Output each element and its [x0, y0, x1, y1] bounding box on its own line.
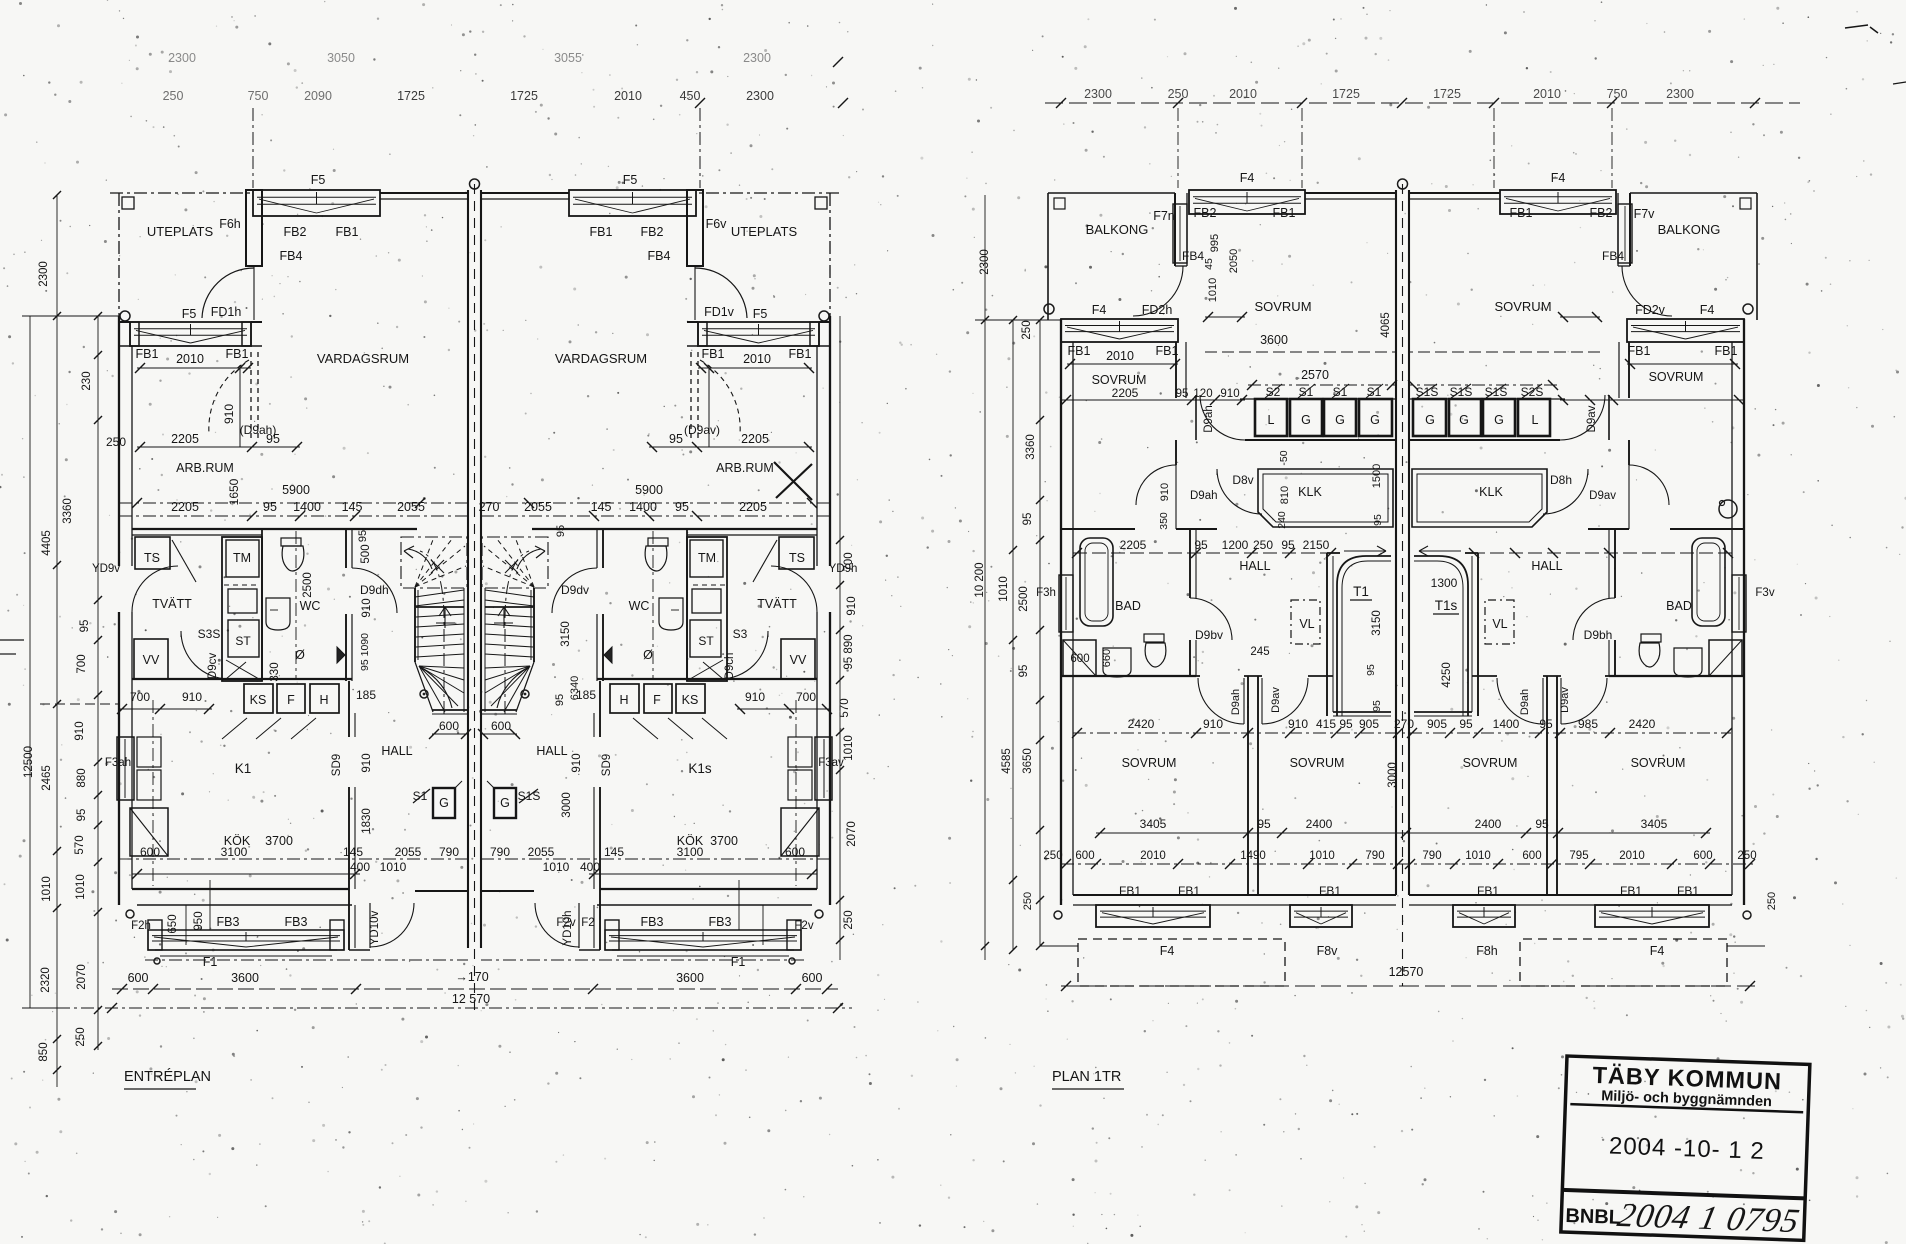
svg-text:790: 790 [490, 845, 510, 859]
svg-text:985: 985 [1578, 717, 1598, 731]
svg-text:3600: 3600 [1260, 333, 1288, 347]
svg-text:905: 905 [1359, 717, 1379, 731]
svg-text:2500: 2500 [302, 572, 314, 598]
svg-text:750: 750 [248, 89, 269, 103]
stair dashed radials [415, 537, 434, 587]
svg-text:600: 600 [128, 971, 149, 985]
svg-text:790: 790 [439, 845, 459, 859]
svg-text:UTEPLATS: UTEPLATS [147, 224, 214, 239]
svg-text:F5: F5 [623, 173, 638, 187]
svg-text:FB3: FB3 [285, 915, 308, 929]
svg-text:1300: 1300 [1431, 576, 1458, 590]
svg-text:5900: 5900 [282, 483, 310, 497]
svg-text:2300: 2300 [1666, 87, 1694, 101]
svg-text:D9bh: D9bh [1584, 628, 1613, 642]
svg-text:FB2: FB2 [284, 225, 307, 239]
svg-text:SOVRUM: SOVRUM [1494, 299, 1551, 314]
svg-text:810: 810 [1279, 486, 1291, 504]
svg-text:1010: 1010 [998, 576, 1010, 602]
svg-text:795: 795 [1569, 850, 1588, 862]
svg-text:D8h: D8h [1550, 473, 1572, 487]
svg-text:2055: 2055 [395, 845, 422, 859]
toilet stub circle right sovrum [1719, 500, 1737, 518]
svg-text:PLAN 1TR: PLAN 1TR [1052, 1069, 1121, 1085]
svg-text:995: 995 [1209, 234, 1221, 252]
svg-text:1725: 1725 [1332, 87, 1360, 101]
svg-text:145: 145 [343, 845, 363, 859]
svg-text:F7v: F7v [1634, 207, 1656, 221]
uteplats dash-dot boundary top [110, 192, 253, 194]
svg-text:2205: 2205 [1112, 386, 1139, 400]
stair winder arc [420, 667, 452, 708]
chase wall between bottom sovrums [1247, 676, 1249, 895]
svg-text:FB4: FB4 [1602, 249, 1624, 263]
bottom window band 2 [1290, 905, 1352, 927]
svg-text:1010: 1010 [543, 860, 570, 874]
svg-text:VARDAGSRUM: VARDAGSRUM [555, 351, 647, 366]
door FD1h arc [202, 268, 254, 318]
left chain right plan lines [984, 195, 986, 960]
party wall ENTREPLAN [467, 190, 469, 948]
svg-text:3055: 3055 [554, 51, 582, 65]
stair arrow upper [408, 549, 432, 569]
closet top line [1240, 398, 1396, 400]
svg-text:D9av: D9av [1270, 687, 1282, 713]
svg-text:HALL: HALL [536, 744, 567, 758]
svg-text:600: 600 [1075, 850, 1094, 862]
svg-text:3405: 3405 [1140, 817, 1167, 831]
svg-text:F5: F5 [182, 307, 197, 321]
svg-text:UTEPLATS: UTEPLATS [731, 224, 798, 239]
stamp outer box [1561, 1056, 1810, 1240]
grid circles right plan [1044, 304, 1054, 314]
toilet WC [281, 538, 301, 546]
hall wall below sovrum [1073, 528, 1135, 530]
svg-text:G: G [500, 796, 510, 810]
door bottom sovrum left leaf+arc [1243, 678, 1245, 724]
svg-text:D9ah: D9ah [1203, 405, 1215, 433]
svg-text:FB1: FB1 [789, 347, 812, 361]
stair slanted treads top [415, 590, 464, 597]
WC right wall upper [345, 529, 347, 568]
dim line sovrum mid row [1061, 399, 1245, 401]
dim line hall row [1073, 552, 1335, 554]
dashdot porch line [145, 959, 468, 961]
svg-text:F4: F4 [1551, 171, 1566, 185]
svg-text:HALL: HALL [381, 744, 412, 758]
svg-text:FB2: FB2 [1194, 206, 1217, 220]
stair bottom edge [432, 709, 467, 711]
svg-text:3650: 3650 [1022, 748, 1034, 774]
svg-text:2004 1 0795: 2004 1 0795 [1614, 1196, 1803, 1240]
corner post vardagsrum [246, 190, 262, 266]
PLAN1TR left-unit geometry [1040, 190, 1397, 986]
svg-text:95: 95 [1176, 388, 1189, 400]
stair left wall [1326, 553, 1328, 716]
svg-text:600: 600 [140, 845, 160, 859]
svg-text:D9dh: D9dh [360, 583, 389, 597]
svg-text:FB1: FB1 [1715, 344, 1738, 358]
porch dashed rect [1078, 939, 1285, 986]
svg-text:F4: F4 [1700, 303, 1715, 317]
svg-text:250: 250 [1021, 320, 1033, 339]
edge marks left [0, 639, 24, 641]
dim lines y858 [119, 858, 468, 860]
svg-text:905: 905 [1427, 717, 1447, 731]
svg-text:270: 270 [1394, 717, 1414, 731]
top window F4 [1189, 190, 1305, 214]
door D9ah arc sovrum [1136, 465, 1176, 505]
sovrum internal dim lines [1205, 316, 1245, 318]
TS diagonal [172, 540, 196, 582]
BAD right wall [1189, 529, 1191, 598]
svg-text:415: 415 [1316, 717, 1336, 731]
svg-text:SOVRUM: SOVRUM [1092, 373, 1147, 387]
south wall at entry [415, 890, 468, 892]
svg-text:12 570: 12 570 [452, 992, 490, 1006]
door S3S arc tvatt [181, 631, 229, 679]
svg-text:2570: 2570 [1301, 368, 1329, 382]
G wardrobe box [433, 788, 455, 818]
svg-text:SOVRUM: SOVRUM [1254, 299, 1311, 314]
washbasin WC [266, 598, 290, 630]
svg-text:600: 600 [802, 971, 823, 985]
svg-text:1400: 1400 [629, 500, 657, 514]
svg-text:145: 145 [342, 500, 363, 514]
svg-text:1010: 1010 [380, 860, 407, 874]
svg-text:G: G [1370, 413, 1380, 427]
svg-text:D9ch: D9ch [724, 653, 736, 680]
svg-text:4585: 4585 [1001, 748, 1013, 774]
svg-text:95 890: 95 890 [843, 634, 855, 669]
closet row boxes L G G G [1255, 399, 1287, 436]
svg-text:1010: 1010 [1465, 850, 1491, 862]
svg-text:1010: 1010 [75, 874, 87, 900]
dim extension vert 910 [239, 365, 241, 447]
svg-text:250: 250 [1022, 892, 1034, 910]
svg-text:2300: 2300 [746, 89, 774, 103]
window F5 top [253, 190, 380, 216]
svg-text:2205: 2205 [739, 500, 767, 514]
TM dashed shelf [224, 584, 260, 586]
top dim line right plan [1045, 102, 1800, 104]
svg-text:D9av: D9av [1559, 687, 1571, 713]
svg-text:F1: F1 [203, 955, 218, 969]
svg-text:2400: 2400 [1306, 817, 1333, 831]
hall wall inner line [354, 713, 356, 737]
top extension lines right plan [1177, 108, 1179, 188]
dim line y833 [1096, 832, 1710, 834]
svg-text:270: 270 [479, 500, 500, 514]
bottom window band 1 [1096, 905, 1210, 927]
svg-text:D9ah: D9ah [1230, 689, 1242, 715]
balkong corner square [1054, 198, 1065, 209]
svg-text:F7n: F7n [1153, 209, 1175, 223]
PLAN1TR right-unit geometry mirrored [1408, 190, 1765, 986]
svg-text:YD10v: YD10v [369, 910, 381, 945]
dim 650 950 vert lines [185, 905, 187, 945]
TM column outer [222, 537, 262, 681]
svg-text:FB1: FB1 [1510, 206, 1533, 220]
svg-text:FB2: FB2 [641, 225, 664, 239]
svg-text:F: F [287, 693, 295, 707]
closet niche wall [1195, 395, 1197, 440]
svg-text:T1s: T1s [1435, 598, 1458, 613]
svg-text:G: G [1459, 413, 1469, 427]
svg-text:BNBL: BNBL [1565, 1205, 1621, 1229]
svg-text:95 1090: 95 1090 [359, 633, 371, 671]
svg-text:F3h: F3h [1036, 587, 1056, 599]
walls bottom sovrum doors [1196, 675, 1200, 677]
svg-text:3700: 3700 [710, 834, 738, 848]
svg-text:3050: 3050 [327, 51, 355, 65]
svg-text:3360: 3360 [62, 498, 74, 524]
svg-text:F5: F5 [311, 173, 326, 187]
svg-text:240: 240 [1276, 511, 1288, 529]
svg-text:S3: S3 [733, 627, 748, 641]
svg-text:FB1: FB1 [1119, 884, 1141, 898]
svg-text:910: 910 [361, 753, 373, 772]
svg-text:600: 600 [491, 719, 511, 733]
svg-text:FB1: FB1 [590, 225, 613, 239]
entrance window FB3 band [148, 930, 344, 950]
svg-text:660: 660 [1101, 649, 1113, 667]
svg-text:2010: 2010 [614, 89, 642, 103]
bottom dim line right plan [1061, 985, 1755, 987]
svg-text:HALL: HALL [1531, 559, 1562, 573]
toilet bad [1144, 634, 1164, 642]
ENTREPLAN right-unit geometry mirrored [478, 190, 839, 964]
svg-text:450: 450 [680, 89, 701, 103]
party wall PLAN1TR [1395, 190, 1397, 895]
top wall east of window [1305, 192, 1396, 194]
svg-text:TM: TM [698, 551, 716, 565]
KLK closet polygon [1258, 469, 1393, 527]
svg-text:D9dv: D9dv [561, 583, 589, 597]
VL dashed box [1291, 600, 1320, 644]
stamp bottom band line [1562, 1190, 1805, 1198]
svg-text:ST: ST [235, 634, 251, 648]
svg-text:600: 600 [785, 845, 805, 859]
right chain line [839, 316, 841, 960]
svg-text:SOVRUM: SOVRUM [1649, 370, 1704, 384]
svg-text:TVÄTT: TVÄTT [757, 597, 797, 611]
svg-text:910: 910 [571, 753, 583, 772]
dim line y733 [1073, 732, 1731, 734]
svg-text:185: 185 [356, 688, 376, 702]
svg-text:880: 880 [76, 768, 88, 787]
svg-text:1490: 1490 [1240, 850, 1266, 862]
door D9ah dashed arc [209, 360, 249, 434]
interior wall tvatt top y531 [132, 528, 417, 530]
svg-text:95: 95 [554, 694, 566, 706]
svg-text:2070: 2070 [846, 821, 858, 847]
TM box [226, 540, 259, 577]
stair up arrow [444, 607, 446, 628]
door D9bv arc [1190, 598, 1232, 640]
svg-text:2150: 2150 [1303, 538, 1330, 552]
south wall kitchen [132, 888, 349, 890]
svg-text:95: 95 [357, 530, 369, 542]
svg-text:95: 95 [1372, 514, 1384, 526]
svg-text:TVÄTT: TVÄTT [152, 597, 192, 611]
svg-text:1400: 1400 [293, 500, 321, 514]
svg-text:3100: 3100 [677, 845, 704, 859]
svg-text:-50: -50 [1278, 450, 1290, 465]
svg-text:D9ah: D9ah [1519, 689, 1531, 715]
svg-text:600: 600 [439, 719, 459, 733]
svg-text:SOVRUM: SOVRUM [1290, 756, 1345, 770]
left chain slashes [94, 351, 102, 359]
balkong bottom window F4 band [1061, 319, 1178, 342]
balkong outline [1048, 192, 1175, 194]
svg-text:D9av: D9av [1586, 405, 1598, 432]
bottom dim line y1008 [57, 1007, 852, 1009]
VV box [134, 639, 168, 679]
svg-text:KS: KS [250, 693, 267, 707]
stair T1 outline [1337, 556, 1391, 716]
svg-text:250: 250 [1766, 892, 1778, 910]
svg-text:570: 570 [74, 835, 86, 854]
svg-text:95: 95 [1018, 665, 1030, 678]
window sill dim line F5 west [137, 367, 251, 369]
ST box [228, 620, 259, 657]
wall segment above stair [1327, 552, 1340, 554]
svg-text:95: 95 [675, 500, 689, 514]
svg-text:G: G [1494, 413, 1504, 427]
svg-text:95: 95 [1339, 717, 1353, 731]
svg-text:2055: 2055 [528, 845, 555, 859]
svg-text:3000: 3000 [561, 792, 573, 818]
svg-text:FB1: FB1 [1628, 344, 1651, 358]
svg-text:2205: 2205 [741, 432, 769, 446]
svg-text:12500: 12500 [23, 746, 35, 778]
svg-text:2010: 2010 [1619, 850, 1645, 862]
ENTREPLAN left-unit geometry [110, 190, 471, 964]
svg-text:2205: 2205 [1120, 538, 1147, 552]
svg-text:2300: 2300 [168, 51, 196, 65]
door YD9v arc [132, 566, 178, 612]
svg-text:KLK: KLK [1479, 485, 1503, 499]
svg-text:→170: →170 [455, 970, 488, 984]
bottom dim line y989 [112, 988, 838, 990]
svg-text:3600: 3600 [231, 971, 259, 985]
wall TM/WC [261, 529, 263, 681]
svg-text:Ø: Ø [295, 648, 305, 662]
svg-text:95: 95 [1535, 817, 1549, 831]
svg-text:95: 95 [76, 809, 88, 822]
grid circle sw [126, 910, 134, 918]
window F3h west [1059, 575, 1073, 632]
svg-text:G: G [439, 796, 449, 810]
svg-text:2320: 2320 [40, 967, 52, 993]
svg-text:(D9av): (D9av) [684, 423, 720, 437]
stair newel circle [420, 690, 428, 698]
svg-text:700: 700 [843, 552, 855, 571]
svg-text:ARB.RUM: ARB.RUM [176, 461, 234, 475]
svg-text:950: 950 [193, 911, 205, 930]
window FB4 vertical [1173, 204, 1187, 263]
svg-text:F6v: F6v [706, 217, 728, 231]
svg-text:FB4: FB4 [648, 249, 671, 263]
svg-text:95: 95 [1539, 717, 1553, 731]
svg-text:1010: 1010 [1309, 850, 1335, 862]
svg-text:700: 700 [76, 654, 88, 673]
grid circle left [120, 311, 130, 321]
house wall right of balkong [1174, 193, 1176, 266]
svg-text:VV: VV [143, 653, 160, 667]
svg-text:3700: 3700 [265, 834, 293, 848]
svg-text:K1: K1 [235, 761, 252, 776]
door D9ah arc upper [1200, 395, 1245, 440]
svg-text:570: 570 [839, 698, 851, 717]
svg-text:FB3: FB3 [217, 915, 240, 929]
svg-text:910: 910 [1203, 717, 1223, 731]
svg-text:SOVRUM: SOVRUM [1463, 756, 1518, 770]
svg-text:YD10h: YD10h [562, 910, 574, 945]
shower 600 box [1063, 640, 1096, 676]
svg-text:1400: 1400 [1493, 717, 1520, 731]
svg-text:F6h: F6h [219, 217, 241, 231]
svg-text:VL: VL [1492, 617, 1507, 631]
svg-text:910: 910 [745, 690, 765, 704]
svg-text:F2h: F2h [131, 920, 151, 932]
svg-text:2070: 2070 [76, 964, 88, 990]
TS box [135, 537, 170, 569]
window sill dim line [1067, 363, 1178, 365]
svg-text:1500: 1500 [1371, 464, 1383, 488]
TM bottom diagonal [226, 660, 259, 679]
svg-text:FB1: FB1 [1156, 344, 1179, 358]
svg-text:F1: F1 [731, 955, 746, 969]
svg-text:250: 250 [163, 89, 184, 103]
top dim slashes left plan [695, 98, 705, 108]
svg-text:330: 330 [269, 662, 281, 681]
svg-text:ST: ST [698, 634, 714, 648]
svg-text:910: 910 [1288, 717, 1308, 731]
svg-text:H: H [619, 693, 628, 707]
stamp TABY KOMMUN group [1561, 1056, 1810, 1240]
svg-text:250: 250 [1043, 850, 1062, 862]
svg-text:2055: 2055 [524, 500, 552, 514]
dim row 5900 lines [119, 502, 468, 504]
svg-text:BAD: BAD [1666, 599, 1692, 613]
svg-text:910: 910 [74, 721, 86, 740]
entry door YD10v leaf+arc [369, 903, 371, 948]
svg-text:400: 400 [350, 860, 370, 874]
svg-text:230: 230 [81, 371, 93, 390]
svg-text:4250: 4250 [1441, 662, 1453, 688]
svg-text:2010: 2010 [1106, 349, 1134, 363]
dashed partition vardagsrum/arbrum [250, 352, 252, 440]
svg-text:250: 250 [1253, 538, 1273, 552]
svg-text:910: 910 [1220, 388, 1239, 400]
bathtub [1080, 538, 1113, 626]
svg-text:2300: 2300 [743, 51, 771, 65]
svg-text:1830: 1830 [361, 808, 373, 834]
stair landing line [416, 606, 464, 608]
svg-text:K1s: K1s [688, 761, 712, 776]
svg-text:95: 95 [1022, 513, 1034, 526]
stair dim 600 [432, 733, 468, 735]
svg-text:ARB.RUM: ARB.RUM [716, 461, 774, 475]
kitchen crossed box [130, 808, 168, 856]
svg-text:700: 700 [796, 690, 816, 704]
svg-text:SD9: SD9 [601, 754, 613, 776]
svg-text:FB1: FB1 [1677, 884, 1699, 898]
svg-text:245: 245 [1250, 646, 1269, 658]
svg-text:95: 95 [669, 432, 683, 446]
